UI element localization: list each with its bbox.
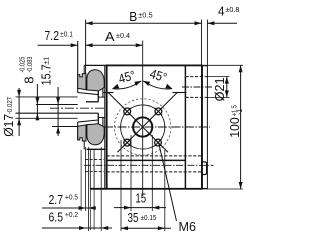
dim 4 <box>207 3 239 25</box>
dim 15 <box>114 191 166 210</box>
45deg reference stubs <box>104 92 114 94</box>
svg-text:±0.8: ±0.8 <box>225 5 239 14</box>
ext lines bottom <box>85 147 87 211</box>
internal vertical edge <box>184 65 186 189</box>
hole X marks <box>124 108 163 147</box>
bore inner wall lower <box>97 113 99 124</box>
svg-text:±0.15: ±0.15 <box>141 213 157 222</box>
extra thin vertical <box>80 150 82 211</box>
bolt hole M6 upper left <box>124 108 131 115</box>
svg-text:-0.027: -0.027 <box>5 97 14 114</box>
side view port dashes <box>85 158 104 160</box>
dim 35 <box>121 210 171 230</box>
dim B <box>86 9 202 25</box>
side view body verticals <box>89 149 91 189</box>
svg-text:Ø21: Ø21 <box>212 77 227 101</box>
front view body outline <box>107 65 202 188</box>
key depth line <box>52 126 78 128</box>
dim 6.5 <box>42 209 112 230</box>
dim 2.7 <box>42 192 96 210</box>
svg-text:15: 15 <box>135 191 146 206</box>
ext lines <box>85 20 87 75</box>
svg-text:±0.4: ±0.4 <box>116 31 130 40</box>
svg-text:B: B <box>129 9 137 24</box>
svg-text:35: 35 <box>128 210 139 225</box>
svg-text:Ø17: Ø17 <box>1 114 16 137</box>
M6 leader and text <box>159 143 196 234</box>
side view bottom edge <box>90 188 106 190</box>
svg-text:±0.5: ±0.5 <box>138 11 153 20</box>
side view bottom step <box>87 148 106 150</box>
bolt circle <box>121 105 165 149</box>
svg-text:6.5: 6.5 <box>49 209 64 224</box>
port boss right <box>202 162 206 175</box>
diagonal 45deg lines <box>108 93 168 153</box>
svg-text:±1: ±1 <box>42 57 51 65</box>
rear plate edge <box>202 66 207 189</box>
svg-text:A: A <box>105 29 115 44</box>
svg-text:2.7: 2.7 <box>49 192 64 207</box>
shaft centerline <box>50 107 106 109</box>
upper section: seal dome <box>78 70 105 95</box>
central shaft circle <box>133 117 152 136</box>
hidden port lines dashed <box>107 155 202 157</box>
main horizontal centerline <box>104 126 210 128</box>
step edge line <box>107 159 186 161</box>
dim 8 <box>18 57 40 121</box>
hidden rear bore O21 dashed <box>185 76 207 78</box>
dim 7.2 <box>38 28 78 47</box>
dim 100 <box>203 65 244 189</box>
dim O21 <box>208 77 230 102</box>
svg-text:M6: M6 <box>179 219 197 234</box>
dim A <box>86 29 143 47</box>
side view top step <box>84 64 107 66</box>
45 degree arcs with arrows <box>112 66 172 89</box>
svg-text:7.2: 7.2 <box>45 28 60 43</box>
svg-text:+0.5: +0.5 <box>65 192 78 201</box>
key lines <box>36 104 78 106</box>
bore inner wall upper <box>97 91 99 102</box>
main vertical centerline <box>142 41 144 197</box>
dim O17 <box>1 88 21 137</box>
bolt hole M6 lower left <box>124 139 131 146</box>
port centerline <box>84 164 214 166</box>
svg-text:±0.1: ±0.1 <box>60 29 73 38</box>
bolt hole M6 lower right <box>155 139 162 146</box>
pilot circle dashed <box>115 99 171 155</box>
bolt hole M6 upper right <box>155 108 162 115</box>
svg-text:-0.083: -0.083 <box>25 57 34 73</box>
dim 15.7 <box>39 57 61 136</box>
svg-text:8: 8 <box>21 77 36 84</box>
svg-text:-1: -1 <box>235 109 244 115</box>
svg-text:4: 4 <box>218 3 225 18</box>
lower section: flange bar (mirror) <box>78 125 86 141</box>
svg-text:15.7: 15.7 <box>39 64 54 85</box>
svg-text:+0.2: +0.2 <box>65 210 78 219</box>
shaft O17 extension lines <box>16 96 78 98</box>
upper section: flange bar <box>78 74 86 90</box>
svg-text:100: 100 <box>227 117 242 138</box>
flange front face <box>77 41 79 93</box>
lower section: seal dome (mirror) <box>78 120 105 145</box>
